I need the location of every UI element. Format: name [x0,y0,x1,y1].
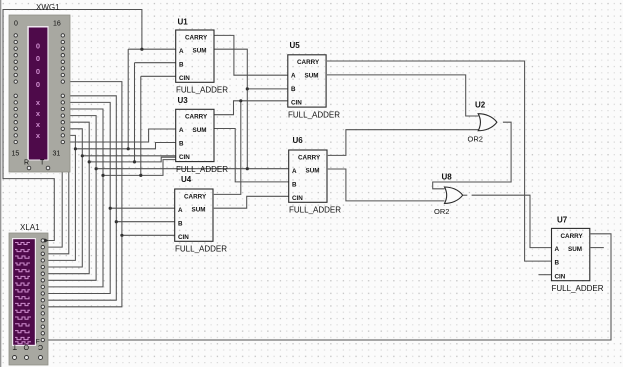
wire XWG pin26 to column 103 [45,109,104,287]
junction U1.CIN vertical end [139,174,142,177]
svg-text:CIN: CIN [179,75,190,82]
svg-text:A: A [292,168,297,175]
svg-text:U2: U2 [475,101,486,110]
wire U6.SUM to U8 lower input [328,169,445,201]
svg-text:0: 0 [36,54,40,63]
wire U1.A feed vertical down to U3.B branch [127,49,129,149]
svg-text:U1: U1 [178,18,189,27]
junction stub one branch on column 89.2 [88,160,91,163]
svg-text:U8: U8 [442,173,453,182]
wire XWG pin27 to column 96.1 [45,116,97,281]
svg-text:XLA1: XLA1 [20,223,40,232]
wire branch long run to U6.A [96,168,289,170]
wire U1.A input horizontal [128,48,176,50]
or gate U8 [434,173,463,217]
XLA1 waveform squiggles [15,243,31,344]
svg-text:B: B [291,86,296,93]
junction U4.A branch [109,207,112,210]
XWG1 right pin circles [61,34,64,144]
svg-text:SUM: SUM [193,48,207,55]
wire XWG pin28 to column 89.2 [45,122,90,274]
junction U4.CIN branch [120,234,123,237]
wire branch to U4.CIN [122,234,175,236]
word generator XWG1 [9,3,70,172]
svg-text:16: 16 [53,21,61,28]
wire U6.CARRY to U2 lower input [328,130,479,156]
junction U1.A vertical end [127,147,130,150]
svg-text:CARRY: CARRY [185,114,208,121]
svg-text:U7: U7 [557,216,568,225]
wire U7.CIN stub [539,274,552,276]
svg-text:15: 15 [12,151,20,158]
junction on U1.A net top tap [140,48,143,51]
svg-text:SUM: SUM [305,72,319,79]
junction U3.CIN branch on column 82.3 [81,154,84,157]
wire U7.SUM stub [591,247,604,249]
svg-text:SUM: SUM [193,127,207,134]
wire U5.SUM to U2 upper input [327,75,479,116]
junction U6.A branch on column 96.1 [95,167,98,170]
wire U1.CIN feed vertical down [140,76,142,175]
svg-text:CIN: CIN [178,234,189,241]
svg-text:U6: U6 [293,136,304,145]
junction U3.B branch on column 75.4 [74,147,77,150]
wire XWG pin25 to column 110.2 [45,102,111,293]
wire XWG pin24 to column 116.3 [45,96,117,300]
svg-text:0: 0 [36,42,40,51]
svg-text:CARRY: CARRY [184,193,207,200]
svg-text:FULL_ADDER: FULL_ADDER [176,86,228,95]
wire branch to U3.B zigzag [75,143,175,149]
wire branch U1.SUM to U5.B [247,88,287,90]
full adder U3 [176,96,229,174]
full adder U5 [288,41,340,120]
XWG1 display digits [36,42,41,141]
svg-text:U5: U5 [290,41,301,50]
wire XWG pin16 straight drop to XLA pin2 [45,172,63,247]
full adder U4 [175,175,228,254]
svg-text:CIN: CIN [291,100,302,107]
svg-text:Q: Q [23,343,29,350]
svg-text:SUM: SUM [568,246,582,253]
wire U1.B input horizontal [135,62,176,64]
wire U8 output stub [463,194,468,196]
logic analyzer XLA1 [9,223,49,365]
wire U1.CARRY to U5.A [214,35,288,75]
wire XWG pin29 to column 82.3 [45,129,83,267]
XLA1 bottom terminals C Q T rotated [12,343,43,350]
wire column 68.8 drop to XLA pin3 [45,142,69,254]
svg-text:CIN: CIN [292,195,303,202]
svg-text:A: A [179,48,184,55]
wire XWG pin23 to column 121.9 [45,82,122,307]
svg-text:T: T [40,160,45,167]
svg-text:0: 0 [14,21,18,28]
svg-text:OR2: OR2 [468,135,483,144]
wire U3.CARRY to U5.CIN [214,101,288,115]
svg-text:A: A [179,127,184,134]
svg-text:B: B [178,220,183,227]
wire XWG pin31 run to U3.A riser [66,129,176,142]
svg-text:U4: U4 [181,175,192,184]
wire U7.CARRY to XLA pin16 bottom run [45,234,612,340]
svg-text:CIN: CIN [179,154,190,161]
svg-text:SUM: SUM [192,207,206,214]
wire branch zigzag stub one [89,157,176,162]
svg-text:T: T [12,343,17,350]
full adder U7 [552,216,604,293]
svg-text:FULL_ADDER: FULL_ADDER [176,165,228,174]
svg-text:31: 31 [53,151,61,158]
junction column 68.8 on pin31 run [67,140,70,143]
wire U4.SUM to U6.CIN [214,196,289,208]
wire U1.B feed vertical down [134,63,136,162]
svg-text:SUM: SUM [306,168,320,175]
svg-text:FULL_ADDER: FULL_ADDER [288,110,340,119]
wire XWG pin30 to column 75.4 [45,135,76,260]
junction U4.CARRY on U5.CIN net [239,99,242,102]
svg-text:A: A [178,207,183,214]
wire branch to U4.A [110,207,175,209]
svg-text:B: B [555,260,560,267]
full adder U6 [289,136,342,215]
svg-text:A: A [291,73,296,80]
wire branch to U4.B [116,221,174,223]
wire U1.SUM down run [214,49,247,169]
junction U1.SUM end on U6.A net [246,167,249,170]
wire U3.SUM to U6.B [214,129,289,182]
svg-text:A: A [555,246,560,253]
or gate U2 [468,101,497,144]
svg-text:FULL_ADDER: FULL_ADDER [552,284,604,293]
svg-text:CARRY: CARRY [297,59,320,66]
XWG1 left pin circles [14,34,17,144]
wire U2 output to U8 upper input [433,122,511,189]
svg-text:C: C [38,343,43,350]
svg-text:CARRY: CARRY [298,154,321,161]
wire U1.CIN input horizontal [141,75,176,77]
full adder U1 [176,18,229,95]
XLA1 pin1 arrow marker [45,238,49,242]
svg-text:CIN: CIN [555,273,566,280]
svg-text:0: 0 [36,80,40,89]
svg-text:B: B [292,181,297,188]
XLA1 pin circles [41,239,44,342]
svg-text:U3: U3 [178,96,189,105]
workspace border left edge [0,0,2,367]
svg-text:R: R [24,160,29,167]
svg-text:FULL_ADDER: FULL_ADDER [289,206,341,215]
wire U4.CARRY up to U5.CIN net [214,101,241,195]
junction U4.B branch [115,220,118,223]
svg-text:OR2: OR2 [434,207,449,216]
svg-text:XWG1: XWG1 [36,3,60,12]
svg-text:B: B [179,61,184,68]
junction U1.B vertical end [133,160,136,163]
wire branch to U3.CIN [82,155,175,157]
svg-text:CARRY: CARRY [561,233,584,240]
svg-text:B: B [179,141,184,148]
svg-text:FULL_ADDER: FULL_ADDER [175,245,227,254]
junction stub two branch on column 103 [101,174,104,177]
svg-text:CARRY: CARRY [185,34,208,41]
wire U5.CARRY to U7.B [327,61,552,261]
wire branch zigzag stub two [103,160,176,176]
junction dots [67,48,249,237]
junction U1.SUM to U5.B [246,87,249,90]
wire net U1.A tap to XLA pin1 via top-left loop [3,10,142,241]
wire U8 output to U7.A [472,195,552,247]
svg-text:0: 0 [36,67,40,76]
